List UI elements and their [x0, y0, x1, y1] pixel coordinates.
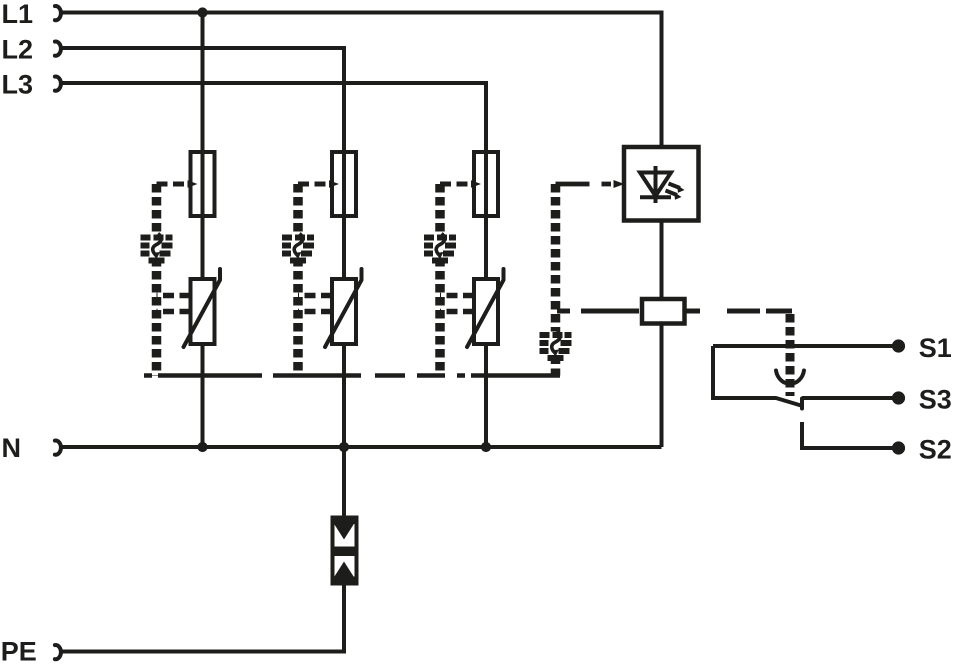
- switch blade: [776, 398, 801, 406]
- mechanical linkage riser 3 (dashed): [435, 184, 445, 234]
- node N-branch2: [339, 442, 349, 452]
- linkage actuator vertical (dashed): [786, 314, 795, 396]
- fuse F3: [474, 152, 498, 216]
- svg-text:PE: PE: [1, 636, 37, 666]
- node N-branch3: [481, 442, 491, 452]
- svg-text:L1: L1: [2, 0, 34, 29]
- wire L2: [61, 48, 344, 279]
- thermal disconnector T4: [540, 331, 572, 358]
- node S3 terminal: [892, 391, 905, 404]
- svg-text:S1: S1: [919, 333, 952, 363]
- fuse F2: [332, 152, 356, 216]
- linkage stubs to varistor RV2: [298, 296, 332, 312]
- wire LED to relay: [660, 221, 664, 300]
- mechanical linkage riser 4 (dashed): [551, 184, 561, 332]
- terminal PE: [1, 636, 61, 666]
- relay coil K1: [642, 299, 685, 324]
- wire PE: [61, 584, 344, 652]
- thermal disconnector T1: [141, 234, 173, 261]
- wire L3: [61, 83, 486, 279]
- thermal disconnector T2: [282, 234, 314, 261]
- mechanical linkage riser 2 (dashed): [293, 184, 303, 234]
- terminal N: [2, 433, 61, 463]
- svg-text:S3: S3: [919, 385, 952, 415]
- terminal L1: [2, 0, 61, 29]
- wire S1: [713, 344, 894, 348]
- wire L1: [61, 13, 662, 148]
- wire switch bracket: [713, 346, 776, 398]
- varistor RV3: [467, 269, 504, 347]
- spark gap N-PE: [331, 516, 359, 586]
- wire S3: [802, 396, 894, 400]
- linkage relay to switch (dashed): [686, 309, 794, 314]
- node S2 terminal: [892, 441, 905, 454]
- svg-text:L3: L3: [2, 69, 34, 99]
- wire S2: [802, 422, 894, 448]
- wire branch3 lower: [484, 344, 488, 447]
- linkage stub to fuse F2: [298, 180, 339, 188]
- wire N: [61, 445, 662, 449]
- linkage stub to fuse F3: [440, 180, 481, 188]
- linkage stub to LED (dashed with arrow): [556, 180, 625, 188]
- fuse F1: [191, 152, 215, 216]
- linkage stubs to varistor RV1: [157, 296, 191, 312]
- LED symbol: [640, 166, 685, 203]
- wire branch1 vertical: [201, 13, 205, 280]
- mechanical linkage bus (dashed): [144, 373, 560, 378]
- terminal L3: [2, 69, 61, 99]
- node L1-branch1 junction: [197, 7, 207, 17]
- node N-branch1: [197, 442, 207, 452]
- LED indicator box U1: [624, 147, 699, 221]
- varistor RV1: [184, 269, 221, 347]
- wire branch2 lower: [342, 344, 346, 447]
- wire relay to N: [660, 324, 664, 448]
- wire N to spark gap: [342, 447, 346, 518]
- linkage stub to fuse F1: [157, 180, 198, 188]
- linkage riser4 to relay (dashed): [557, 309, 640, 314]
- latch cup symbol: [776, 371, 804, 384]
- switch NC contact bar: [800, 399, 804, 409]
- wire branch1 lower: [201, 344, 205, 447]
- svg-text:L2: L2: [2, 34, 34, 64]
- terminal L2: [2, 34, 61, 64]
- linkage stubs to varistor RV3: [440, 296, 474, 312]
- mechanical linkage riser 1 (dashed): [152, 184, 162, 234]
- svg-text:N: N: [2, 433, 22, 463]
- varistor RV2: [325, 269, 362, 347]
- node S1 terminal: [892, 339, 905, 352]
- thermal disconnector T3: [424, 234, 456, 261]
- svg-text:S2: S2: [919, 435, 952, 465]
